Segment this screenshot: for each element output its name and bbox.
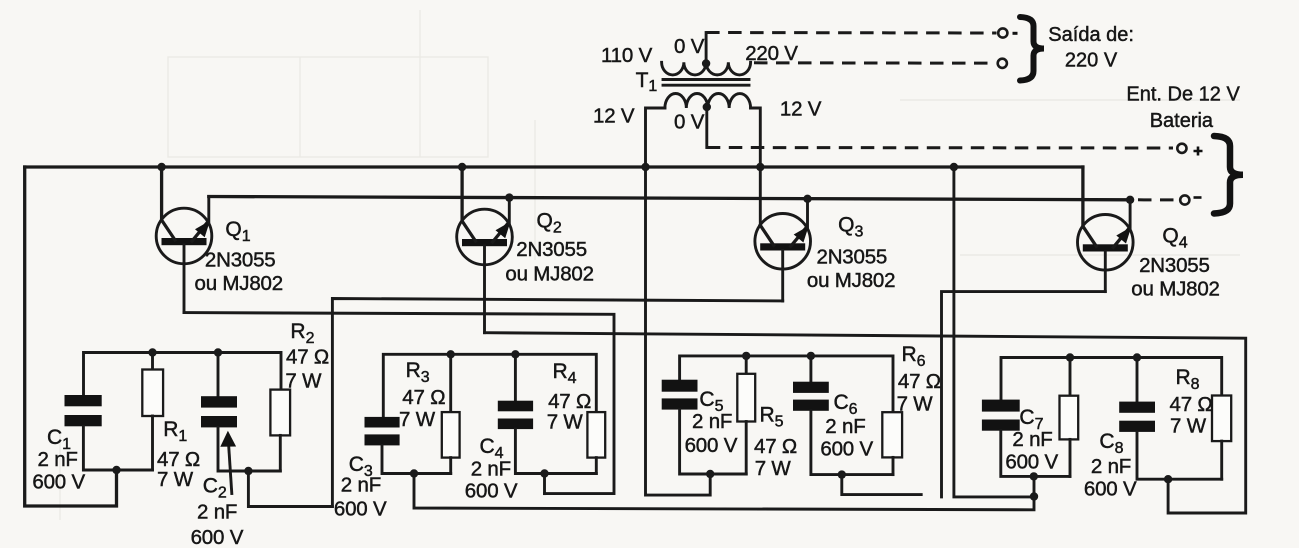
- junction dots block bottoms: [112, 466, 1172, 501]
- svg-text:7 W: 7 W: [547, 411, 584, 434]
- svg-text:600 V: 600 V: [191, 526, 244, 548]
- svg-text:2 nF: 2 nF: [471, 458, 511, 481]
- svg-text:2 nF: 2 nF: [1012, 428, 1052, 451]
- terminal battery minus circle: [1180, 195, 1201, 204]
- svg-text:600 V: 600 V: [685, 434, 738, 457]
- transformer T1 primary winding: [662, 62, 751, 75]
- wire left border: [25, 167, 117, 506]
- capacitor C7: [982, 400, 1070, 477]
- wire block1 left bottom drop: [115, 470, 118, 506]
- wire block3 top: [680, 356, 893, 412]
- wire rail drop to block4 bottom: [954, 167, 1034, 497]
- wire Q4 base to block3 bottom: [942, 292, 1106, 497]
- svg-text:2 nF: 2 nF: [38, 448, 78, 471]
- svg-text:2 nF: 2 nF: [197, 501, 237, 524]
- svg-text:2N3055: 2N3055: [817, 246, 888, 269]
- resistor R3: [442, 354, 460, 473]
- junction dots rail: [157, 163, 958, 171]
- svg-text:600 V: 600 V: [465, 479, 518, 502]
- terminal output top circle: [998, 28, 1007, 37]
- capacitor C4: [498, 354, 597, 473]
- wire emitter bus: [209, 197, 1130, 200]
- wire top rail: [25, 165, 1083, 168]
- brace output 220V: [1020, 17, 1044, 81]
- brace battery input: [1214, 136, 1243, 214]
- terminal output bottom circle: [998, 59, 1007, 68]
- svg-text:C2: C2: [203, 475, 227, 502]
- wire dashed battery minus: [1138, 198, 1174, 201]
- svg-text:2 nF: 2 nF: [1091, 455, 1131, 478]
- svg-text:47 Ω: 47 Ω: [548, 390, 591, 413]
- capacitor C1: [65, 395, 153, 470]
- svg-text:7 W: 7 W: [157, 468, 194, 491]
- wire Q1 base to block2 bottom: [184, 313, 614, 494]
- resistor R2: [270, 390, 290, 471]
- svg-text:2 nF: 2 nF: [825, 415, 865, 438]
- capacitor C2: [201, 353, 280, 472]
- svg-text:R3: R3: [406, 359, 430, 386]
- svg-text:2 nF: 2 nF: [692, 410, 732, 433]
- wire secondary right 12V lead into Q3 collector: [751, 108, 761, 226]
- svg-text:Q4: Q4: [1162, 225, 1187, 252]
- svg-text:600 V: 600 V: [334, 498, 387, 521]
- svg-text:R4: R4: [553, 360, 577, 387]
- svg-text:R2: R2: [290, 320, 314, 347]
- resistor R6: [882, 412, 902, 474]
- svg-text:7 W: 7 W: [897, 393, 934, 416]
- transformer T1 secondary winding: [665, 94, 751, 109]
- node primary 0V tap: [702, 33, 710, 68]
- node secondary 0V tap: [703, 103, 711, 148]
- svg-text:Q2: Q2: [537, 210, 562, 237]
- wire block3 right bottom drop: [842, 475, 921, 495]
- svg-text:Saída de:: Saída de:: [1048, 24, 1134, 46]
- svg-text:ou MJ802: ou MJ802: [505, 263, 593, 286]
- wire Q1/Q3 base link: [332, 299, 782, 507]
- svg-text:T1: T1: [636, 69, 658, 95]
- svg-text:110 V: 110 V: [601, 44, 653, 67]
- capacitor C3: [365, 417, 451, 474]
- svg-text:47 Ω: 47 Ω: [402, 386, 445, 409]
- svg-text:220 V: 220 V: [745, 42, 798, 65]
- svg-text:R1: R1: [163, 418, 187, 445]
- resistor R1: [142, 353, 163, 471]
- svg-text:C6: C6: [834, 391, 858, 418]
- resistor R7: [1060, 358, 1079, 477]
- junction dots emitter bus: [505, 193, 1134, 204]
- svg-text:7 W: 7 W: [285, 370, 322, 393]
- svg-text:ou MJ802: ou MJ802: [195, 272, 283, 295]
- svg-text:R5: R5: [760, 403, 784, 430]
- svg-text:12 V: 12 V: [593, 105, 635, 128]
- svg-text:12 V: 12 V: [780, 98, 822, 121]
- svg-text:ou MJ802: ou MJ802: [807, 269, 895, 292]
- svg-text:7 W: 7 W: [1170, 415, 1207, 438]
- capacitor C8: [1119, 358, 1222, 480]
- svg-text:7 W: 7 W: [755, 457, 792, 480]
- wire block1 top: [84, 353, 282, 396]
- wire dashed battery plus: [707, 146, 1173, 150]
- terminal battery plus circle: [1177, 144, 1202, 156]
- svg-text:Q1: Q1: [225, 218, 250, 245]
- svg-text:R8: R8: [1176, 366, 1200, 393]
- svg-text:7 W: 7 W: [399, 408, 436, 431]
- wire block2 right bottom drop: [543, 474, 546, 494]
- svg-text:220 V: 220 V: [1065, 50, 1118, 72]
- transistor Q2: [457, 167, 513, 333]
- svg-text:R6: R6: [902, 343, 926, 370]
- svg-text:0 V: 0 V: [674, 111, 705, 134]
- svg-text:600 V: 600 V: [32, 471, 85, 494]
- stray dot right of terminal: [1013, 32, 1018, 35]
- transistor Q3: [755, 199, 811, 301]
- svg-text:Ent. De 12 V: Ent. De 12 V: [1126, 84, 1240, 106]
- svg-text:2N3055: 2N3055: [516, 238, 587, 261]
- resistor R5: [737, 356, 755, 474]
- svg-text:ou MJ802: ou MJ802: [1131, 278, 1219, 301]
- wire Q2 base to block4: [485, 333, 1246, 513]
- svg-text:47 Ω: 47 Ω: [754, 435, 797, 458]
- wire dashed 220V output bottom (220V): [754, 61, 996, 64]
- capacitor C6: [793, 356, 893, 475]
- resistor R4: [587, 412, 605, 473]
- svg-text:0 V: 0 V: [674, 35, 705, 58]
- svg-text:47 Ω: 47 Ω: [898, 370, 941, 393]
- wire dashed 220V output top (0V): [706, 31, 996, 35]
- svg-text:2 nF: 2 nF: [341, 474, 381, 497]
- svg-text:Bateria: Bateria: [1150, 110, 1214, 132]
- transformer T1 core: [663, 80, 749, 86]
- svg-text:47 Ω: 47 Ω: [1170, 393, 1213, 416]
- svg-text:2N3055: 2N3055: [205, 249, 276, 272]
- arrow pointing at C2: [220, 431, 236, 494]
- svg-text:600 V: 600 V: [820, 437, 873, 460]
- transistor Q4: [1078, 167, 1134, 292]
- wire long bottom bus: [414, 474, 1034, 510]
- svg-text:2N3055: 2N3055: [1139, 254, 1210, 277]
- capacitor C5: [662, 380, 747, 474]
- wire block2 top: [383, 354, 596, 417]
- svg-text:600 V: 600 V: [1084, 477, 1137, 500]
- svg-text:C8: C8: [1099, 430, 1123, 457]
- svg-text:600 V: 600 V: [1005, 450, 1058, 473]
- transistor Q1: [156, 167, 212, 313]
- resistor R8: [1212, 396, 1231, 480]
- junction dots block tops: [148, 348, 1141, 361]
- wire block4 top: [1001, 358, 1222, 400]
- svg-text:Q3: Q3: [838, 214, 863, 241]
- wire secondary left 12V lead: [646, 108, 711, 495]
- svg-text:47 Ω: 47 Ω: [286, 346, 329, 369]
- wire block1 right bottom drop: [248, 471, 332, 507]
